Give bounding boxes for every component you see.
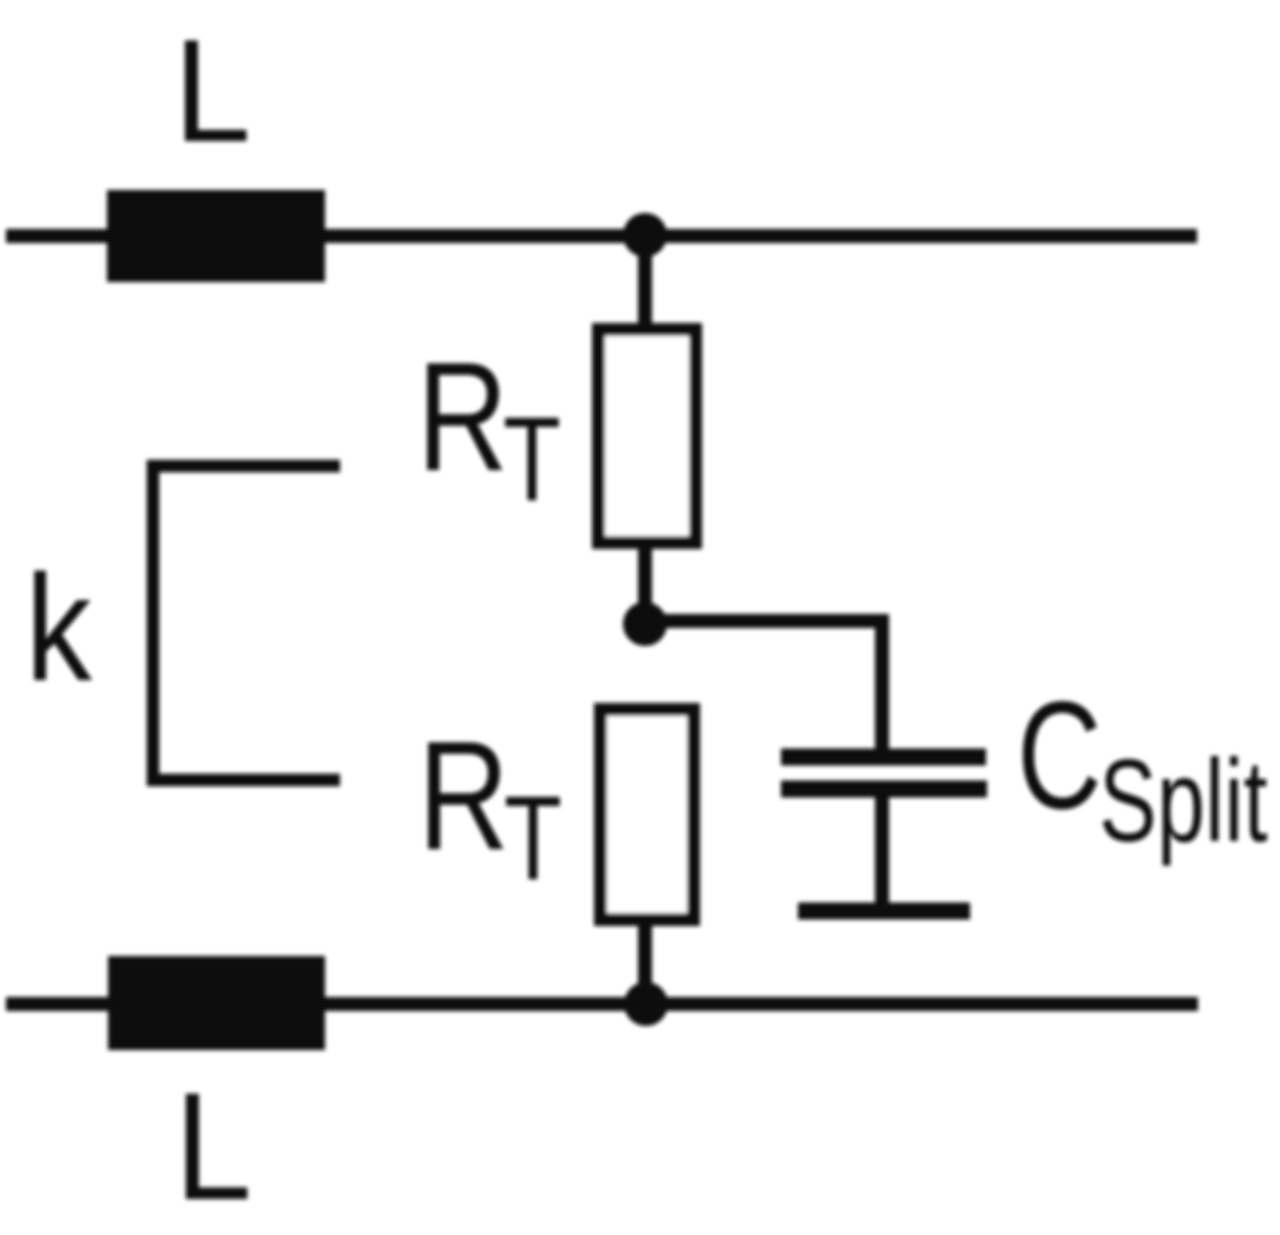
svg-text:T: T	[503, 392, 561, 526]
svg-text:C: C	[1017, 670, 1102, 840]
resistor RT2	[601, 710, 694, 920]
svg-text:L: L	[174, 10, 252, 173]
capacitor CSplit bottom plate	[781, 781, 987, 798]
wire node to RT1	[638, 235, 652, 330]
wire RT1 to mid node	[638, 543, 652, 624]
wire capacitor lead	[875, 795, 889, 905]
capacitor CSplit top plate	[781, 749, 986, 766]
svg-text:L: L	[175, 1061, 252, 1231]
inductor L (top)	[107, 190, 325, 282]
node mid junction	[623, 602, 667, 646]
wire RT2 to bottom node	[638, 919, 652, 1004]
resistor RT1	[599, 330, 696, 543]
svg-text:T: T	[504, 771, 562, 905]
svg-text:k: k	[25, 544, 92, 713]
node top junction	[623, 213, 667, 257]
svg-text:Split: Split	[1099, 735, 1268, 866]
wire top rail	[6, 229, 1197, 243]
coupling k bracket	[153, 466, 340, 780]
svg-text:R: R	[418, 709, 509, 882]
wire mid node to capacitor	[645, 621, 882, 752]
inductor L (bottom)	[108, 956, 325, 1050]
node bottom junction	[624, 982, 668, 1026]
capacitor CSplit end bar	[798, 903, 970, 920]
wire bottom rail	[6, 997, 1198, 1011]
svg-text:R: R	[417, 330, 508, 503]
